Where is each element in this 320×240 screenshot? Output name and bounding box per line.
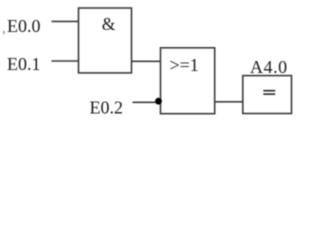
wire E0.0 to AND gate input 1 xyxy=(52,20,80,22)
svg-text:A4.0: A4.0 xyxy=(250,57,288,77)
svg-text:E0.2: E0.2 xyxy=(90,98,124,118)
assignment symbol = xyxy=(263,90,275,92)
output coil box A4.0 xyxy=(243,76,292,114)
svg-text:&: & xyxy=(102,14,116,34)
stray mark at left edge xyxy=(3,31,4,34)
AND gate box U1 xyxy=(79,8,132,73)
wire E0.1 to AND gate input 2 xyxy=(52,60,80,62)
wire AND output to OR gate input 1 xyxy=(132,60,162,62)
svg-text:E0.1: E0.1 xyxy=(7,54,41,74)
negation dot at OR gate input 2 xyxy=(155,98,162,105)
OR gate box U2 xyxy=(161,48,215,114)
svg-text:E0.0: E0.0 xyxy=(7,16,41,36)
wire E0.2 to negated OR gate input 2 xyxy=(133,101,157,103)
svg-text:>=1: >=1 xyxy=(170,55,199,75)
wire OR output to coil A4.0 xyxy=(215,101,243,103)
